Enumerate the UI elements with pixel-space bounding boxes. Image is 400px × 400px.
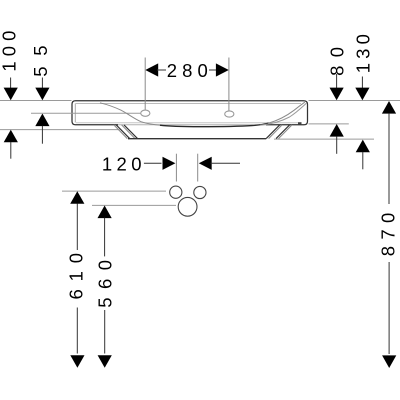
- dimension 100 lower stem: [10, 142, 12, 159]
- skirt left slant outer: [114, 125, 128, 139]
- dimension 280 right tail: [209, 69, 217, 71]
- reference line 130 level: [274, 138, 374, 140]
- faucet hole right: [225, 111, 234, 117]
- basin body outline: [72, 101, 308, 125]
- svg-text:120: 120: [102, 154, 142, 175]
- dimension 560 down arrow: [98, 355, 112, 368]
- skirt right slant outer: [279, 125, 293, 139]
- svg-text:560: 560: [95, 260, 116, 308]
- dimension 100 down arrow: [4, 88, 18, 101]
- dimension 870 down arrow: [382, 355, 396, 368]
- dimension 560 upper stem: [104, 218, 106, 257]
- dimension 610 lower stem: [76, 308, 78, 354]
- svg-text:610: 610: [66, 253, 87, 300]
- wall drain circle: [178, 197, 197, 216]
- extension line 120 left: [175, 154, 177, 182]
- reference line 55 level: [31, 112, 140, 114]
- dimension 80 down arrow: [330, 88, 344, 101]
- dimension 55 down arrow: [35, 88, 49, 101]
- dimension 120 right-pointing arrowhead: [163, 157, 176, 170]
- dimension 870 up arrow: [382, 101, 396, 114]
- dimension 120 right tail: [211, 162, 241, 164]
- dimension 610 down arrow: [70, 355, 84, 368]
- wall supply circle right: [194, 186, 206, 198]
- svg-text:130: 130: [353, 34, 374, 73]
- dimension 280 left tail: [157, 69, 166, 71]
- basin bowl profile curve left: [100, 103, 162, 126]
- dimension 280 left arrowhead: [145, 63, 158, 76]
- top reference line (rim level) left segment: [0, 100, 72, 102]
- dimension 870 lower stem: [388, 262, 390, 354]
- basin bowl profile curve middle: [160, 123, 269, 127]
- basin bottom edge middle (light): [118, 124, 266, 126]
- svg-text:80: 80: [327, 47, 348, 76]
- dimension 120 leader line: [144, 162, 162, 164]
- dimension 100 upper stem: [10, 78, 12, 89]
- basin bowl profile curve right: [268, 102, 305, 123]
- basin inner bottom edge line: [76, 122, 298, 124]
- reference line 560 level: [92, 204, 176, 206]
- basin inner left edge line: [74, 104, 76, 123]
- dimension 80 up arrow: [330, 124, 344, 137]
- dimension 870 upper stem: [388, 113, 390, 204]
- wall supply circle left: [170, 186, 182, 198]
- skirt left slant inner: [122, 125, 136, 139]
- dimension 130 lower stem: [362, 152, 364, 169]
- dimension 120 left-pointing arrowhead: [199, 157, 212, 170]
- dimension 55 up arrow: [35, 114, 49, 127]
- basin body fill: [72, 101, 308, 125]
- dimension 130 down arrow: [355, 88, 369, 101]
- dimension 55 upper stem: [41, 78, 43, 89]
- skirt right slant inner: [269, 125, 283, 139]
- skirt right slant inner dark: [266, 125, 280, 139]
- skirt left slant outer dark: [116, 125, 130, 139]
- skirt bottom edge: [128, 138, 266, 140]
- extension line 280 right: [228, 58, 230, 111]
- dimension 80 upper stem: [336, 74, 338, 88]
- dimension 100 up arrow: [4, 130, 18, 143]
- svg-text:100: 100: [0, 31, 20, 72]
- skirt right slant outer dark: [276, 125, 290, 139]
- drain mark: [298, 122, 302, 124]
- svg-text:55: 55: [30, 45, 51, 76]
- dimension 610 upper stem: [76, 204, 78, 251]
- basin bowl inner parallel curve: [260, 103, 306, 125]
- svg-text:870: 870: [377, 213, 398, 257]
- dimension 610 up arrow: [70, 191, 84, 204]
- reference line 80 level: [309, 123, 349, 125]
- extension line 280 left: [144, 58, 146, 110]
- basin inner top edge line: [76, 103, 302, 105]
- dimension 55 lower stem: [41, 126, 43, 144]
- top reference line (rim level) right segment: [309, 100, 400, 102]
- svg-text:280: 280: [167, 60, 208, 81]
- extension line 120 right: [197, 154, 199, 182]
- dimension 280 right arrowhead: [216, 63, 229, 76]
- reference line 610 level: [62, 190, 166, 192]
- dimension 130 upper stem: [361, 77, 363, 89]
- faucet hole left: [141, 110, 150, 116]
- dimension 560 lower stem: [104, 310, 106, 354]
- skirt left slant inner dark: [124, 125, 138, 139]
- dimension 560 up arrow: [98, 206, 112, 219]
- dimension 80 lower stem: [336, 136, 338, 154]
- dimension 130 up arrow: [356, 140, 370, 153]
- reference line 100 level: [0, 129, 120, 131]
